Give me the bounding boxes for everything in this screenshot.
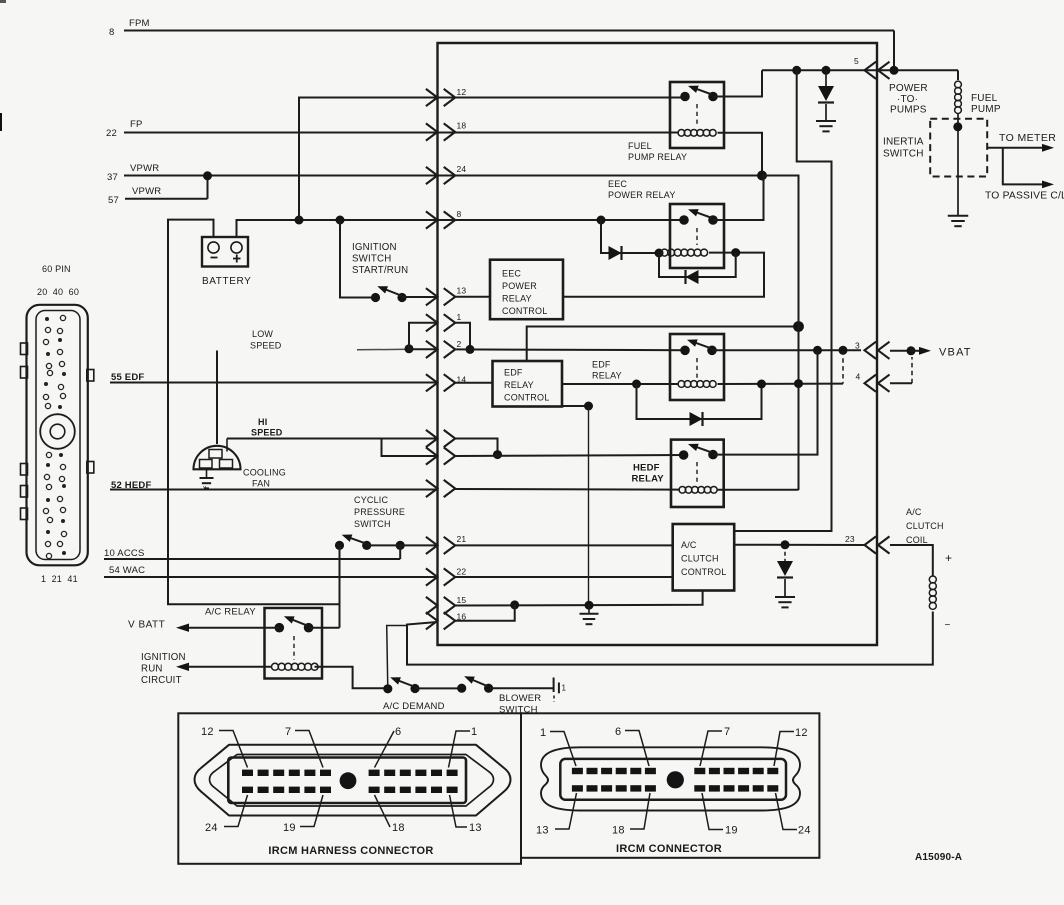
scan edge artifact <box>0 113 2 131</box>
svg-text:PUMP RELAY: PUMP RELAY <box>628 152 687 162</box>
svg-text:PRESSURE: PRESSURE <box>354 507 405 517</box>
VBAT arrow and label <box>911 350 920 352</box>
svg-text:RELAY: RELAY <box>632 474 665 485</box>
svg-text:SPEED: SPEED <box>251 428 283 438</box>
diode CR2 EEC relay clamp loop <box>659 253 736 277</box>
svg-text:BLOWER: BLOWER <box>499 693 541 704</box>
wire 52 HEDF row <box>110 489 437 491</box>
EDF relay control module U2 <box>493 361 563 407</box>
wire A/C relay coil to A/C demand switch <box>315 667 388 689</box>
wire demand sw1 to sw2 <box>415 687 462 689</box>
junction pins 1-2 external bracket <box>405 344 414 353</box>
wire hi speed row A <box>226 439 228 452</box>
svg-text:RELAY: RELAY <box>504 380 534 390</box>
svg-text:−: − <box>945 620 951 631</box>
svg-text:12: 12 <box>201 726 214 738</box>
pin 5 arrows right edge <box>865 62 877 79</box>
svg-text:19: 19 <box>725 825 738 837</box>
svg-text:5: 5 <box>854 56 859 66</box>
junction EEC coil left <box>655 249 664 258</box>
svg-text:START/RUN: START/RUN <box>352 265 408 276</box>
svg-text:12: 12 <box>457 87 467 97</box>
svg-text:57: 57 <box>108 195 119 206</box>
svg-text:55 EDF: 55 EDF <box>111 372 144 383</box>
junction pins 1-2 inside <box>466 345 475 354</box>
svg-text:EEC: EEC <box>502 269 521 279</box>
HEDF relay K4 <box>671 440 724 507</box>
svg-text:10 ACCS: 10 ACCS <box>104 548 144 559</box>
ground G2 control ground <box>588 605 590 613</box>
pin arrow left edge y=322.8 pin 1 <box>426 314 438 331</box>
ground G3 clutch clamp diode <box>775 596 795 598</box>
ground G4 pump clamp diode <box>816 120 836 122</box>
diode CR1 feed to EEC relay coil <box>601 220 659 253</box>
wire EDF control ground stub <box>562 405 589 407</box>
fuel pump coil L1 <box>957 70 959 80</box>
fuel pump relay K1 <box>670 82 724 148</box>
svg-text:CIRCUIT: CIRCUIT <box>141 675 182 686</box>
svg-text:A/C: A/C <box>681 540 697 550</box>
wire EDF control output to EDF relay coil <box>562 383 679 385</box>
svg-text:CONTROL: CONTROL <box>504 393 549 403</box>
svg-text:60 PIN: 60 PIN <box>42 264 71 274</box>
IRCM module boundary box <box>438 43 878 645</box>
wire fuel pump relay output to power-to-pumps <box>713 70 762 96</box>
A/C relay K5 <box>265 608 323 679</box>
svg-text:+: + <box>945 551 952 565</box>
wire ignition switch feed <box>340 220 376 298</box>
svg-text:FAN: FAN <box>252 479 270 489</box>
svg-text:15: 15 <box>457 595 467 605</box>
wire HEDF coil row inside <box>455 488 680 491</box>
svg-text:A/C DEMAND: A/C DEMAND <box>383 701 445 712</box>
wire VPWR node to EDF-HEDF feed vertical <box>762 176 799 491</box>
wire pin 13 row to EEC power relay control <box>455 296 490 298</box>
wire pin 8 row inside to EEC relay contact <box>455 219 684 221</box>
svg-text:13: 13 <box>457 286 467 296</box>
svg-text:EDF: EDF <box>504 368 523 378</box>
IRCM connector pins top row <box>572 768 583 774</box>
wire 55 EDF pin 14 row <box>110 382 437 384</box>
pin arrow left edge y=605.5 pin 15 <box>426 597 438 614</box>
svg-text:2: 2 <box>457 339 462 349</box>
IRCM harness connector pins bottom row <box>242 787 253 793</box>
pin arrow left edge y=220 pin 8 <box>426 211 438 228</box>
svg-text:RELAY: RELAY <box>592 371 622 381</box>
svg-text:CLUTCH: CLUTCH <box>906 521 944 531</box>
junction node ignition feed <box>336 216 345 225</box>
pin arrow left edge y=456 <box>426 447 438 464</box>
svg-text:PUMPS: PUMPS <box>890 105 927 116</box>
connector stub pin 1 <box>553 678 555 693</box>
svg-text:HI: HI <box>258 417 267 427</box>
svg-text:IRCM CONNECTOR: IRCM CONNECTOR <box>616 843 722 855</box>
wire pin 1 to pin 2 inside join <box>455 323 470 350</box>
svg-text:TO METER: TO METER <box>999 132 1056 144</box>
junction clamp diode tap <box>822 66 831 75</box>
svg-text:SWITCH: SWITCH <box>883 149 924 160</box>
junction dot VPWR <box>203 171 212 180</box>
svg-text:CLUTCH: CLUTCH <box>681 554 719 564</box>
wire power to pumps line <box>762 69 958 71</box>
wire pin 21 row to A/C clutch control <box>455 544 673 546</box>
svg-text:1: 1 <box>457 312 462 322</box>
IRCM connector body <box>541 747 800 810</box>
svg-text:4: 4 <box>856 372 861 382</box>
wire ignition run circuit to A/C relay coil <box>188 666 272 668</box>
wire demand switch riser to pin 16 wire <box>387 626 407 689</box>
junction VBAT tie <box>907 346 916 355</box>
wire hi speed bracket to row B <box>382 439 438 457</box>
junction VPWR node pin 24 <box>757 171 767 181</box>
svg-text:54 WAC: 54 WAC <box>109 565 145 576</box>
junction HEDF output riser <box>813 346 822 355</box>
wire 54 WAC pin 22 row <box>104 576 437 578</box>
wire A/C clutch control to pin 23 <box>734 544 864 546</box>
pin arrow left edge y=620.8 pin 16 <box>426 612 438 629</box>
wire battery to fuel pump relay contact pin 12 row <box>299 98 685 221</box>
junction EDF coil VPWR riser <box>757 380 766 389</box>
wire HEDF coil right to VPWR vertical <box>718 489 799 491</box>
pin 4 arrows <box>865 375 877 392</box>
svg-text:POWER: POWER <box>502 281 537 291</box>
svg-text:FUEL: FUEL <box>628 141 652 151</box>
wire A/C relay contact to lower bus <box>309 627 340 629</box>
svg-text:CONTROL: CONTROL <box>502 306 547 316</box>
svg-text:RUN: RUN <box>141 664 163 675</box>
svg-text:HEDF: HEDF <box>633 463 660 474</box>
svg-text:EDF: EDF <box>592 360 611 370</box>
svg-text:CONTROL: CONTROL <box>681 567 726 577</box>
ground fan <box>206 469 208 477</box>
A/C demand switch S3 <box>383 684 392 693</box>
wire blower switch to connector stub <box>489 687 553 689</box>
wire pin 4 external tie to VBAT dashed <box>890 382 912 384</box>
pin arrow left edge y=577 pin 22 <box>426 568 438 585</box>
pin arrow left edge y=382.8 pin 14 <box>426 374 438 391</box>
svg-text:A15090-A: A15090-A <box>915 852 962 863</box>
svg-text:6: 6 <box>395 726 401 738</box>
wire 10 ACCS <box>104 558 400 560</box>
pin arrow left edge y=349.4 pin 2 <box>426 341 438 358</box>
svg-text:TO PASSIVE C/L: TO PASSIVE C/L <box>985 191 1064 202</box>
junction VPWR branch <box>793 321 804 332</box>
svg-text:18: 18 <box>457 121 467 131</box>
junction EDF coil left loop <box>632 380 641 389</box>
svg-text:7: 7 <box>724 726 730 738</box>
pin arrow left edge y=132 pin 18 <box>426 123 438 140</box>
wire pin 3-4 tie inside dashed <box>842 350 844 383</box>
svg-text:SWITCH: SWITCH <box>354 519 391 529</box>
junction pins 15-16 join <box>510 600 519 609</box>
svg-text:INERTIA: INERTIA <box>883 137 924 148</box>
cooling fan motor M1 <box>194 446 241 470</box>
svg-text:18: 18 <box>392 822 405 834</box>
svg-text:1: 1 <box>471 726 477 738</box>
svg-text:FP: FP <box>130 119 143 130</box>
svg-text:VPWR: VPWR <box>130 163 159 174</box>
wire VPWR branch to EDF relay control feed <box>527 327 799 362</box>
svg-text:7: 7 <box>285 726 291 738</box>
svg-text:37: 37 <box>107 172 118 183</box>
svg-text:PUMP: PUMP <box>971 104 1001 115</box>
junction hi-speed join <box>493 450 502 459</box>
battery B1 <box>202 237 248 267</box>
svg-text:RELAY: RELAY <box>502 294 532 304</box>
diode CR5 clutch clamp <box>784 545 786 561</box>
svg-text:EEC: EEC <box>608 179 627 189</box>
svg-text:V BATT: V BATT <box>128 620 165 631</box>
blower switch S4 <box>457 684 466 693</box>
svg-text:13: 13 <box>469 822 482 834</box>
IRCM harness connector center post <box>340 772 357 789</box>
EEC power relay control module U1 <box>490 260 563 320</box>
svg-text:8: 8 <box>109 27 114 38</box>
wire fuel pump relay coil to VPWR node <box>718 133 763 176</box>
svg-text:SWITCH: SWITCH <box>352 254 391 265</box>
junction FPM tap <box>890 66 899 75</box>
svg-text:COOLING: COOLING <box>243 468 286 478</box>
wire to meter <box>988 147 1046 149</box>
ignition switch S1 START/RUN <box>371 293 380 302</box>
svg-text:3: 3 <box>855 341 860 351</box>
junction inertia switch node <box>953 122 962 131</box>
wire EEC relay coil left lead <box>658 252 662 254</box>
wire ignition run to pins 1 2 bracket <box>357 348 409 351</box>
wire clutch coil return to pin 16 <box>407 612 933 665</box>
wire pin 2 row to EDF relay contact <box>455 348 685 351</box>
svg-text:18: 18 <box>612 825 625 837</box>
wire cyclic switch to pin 21 <box>400 544 437 546</box>
wire HEDF relay output to VBAT node <box>713 350 818 454</box>
wire HEDF contact row <box>455 455 684 456</box>
cyclic pressure switch S2 <box>335 541 344 550</box>
junction power-to-pumps A/C feed <box>792 66 801 75</box>
A/C clutch control module U3 <box>673 524 735 591</box>
svg-text:·TO·: ·TO· <box>897 94 918 105</box>
svg-text:1: 1 <box>540 727 546 739</box>
wire pin 16 to pin 15 join <box>455 605 515 621</box>
svg-text:20 40 60: 20 40 60 <box>37 287 79 297</box>
svg-text:23: 23 <box>845 534 855 544</box>
wire EEC control output to EEC relay coil return <box>563 253 764 297</box>
svg-text:24: 24 <box>205 822 218 834</box>
wire battery negative to lower-left bus <box>168 220 340 605</box>
junction pin 3-4 tie inside <box>839 346 848 355</box>
pin arrow left edge y=438.5 <box>426 430 438 447</box>
pin 23 arrows <box>865 536 877 553</box>
svg-text:CYCLIC: CYCLIC <box>354 495 389 505</box>
pin arrow left edge y=97.5 pin 12 <box>426 89 438 106</box>
IRCM harness connector body <box>195 745 511 816</box>
svg-text:VBAT: VBAT <box>939 347 972 359</box>
wire battery positive to pin 8 row <box>237 220 602 237</box>
wire pin 22 row to A/C clutch control <box>455 576 673 578</box>
svg-text:21: 21 <box>457 534 467 544</box>
diode CR3 EDF relay clamp loop <box>637 384 762 419</box>
pin arrow left edge y=296.8 pin 13 <box>426 288 438 305</box>
wire V BATT to A/C relay contact <box>188 627 279 629</box>
wire lower bus to cyclic switch and AC relay <box>339 545 341 627</box>
wire VPWR-57 joining pin 37 line <box>125 198 208 200</box>
svg-text:8: 8 <box>457 209 462 219</box>
junction ground bus to pin 15 row <box>585 601 594 610</box>
wire EEC relay output to VPWR node <box>713 176 764 221</box>
svg-text:A/C: A/C <box>906 507 922 517</box>
svg-text:SPEED: SPEED <box>250 341 282 351</box>
svg-text:24: 24 <box>457 164 467 174</box>
wire pin 3 to VBAT <box>890 350 911 352</box>
wire FP pin 18 row <box>124 132 679 134</box>
wire A/C clutch power feed <box>734 70 831 531</box>
inertia switch dashed box <box>930 119 987 177</box>
svg-text:12: 12 <box>795 727 808 739</box>
IRCM harness connector outline box <box>178 713 521 864</box>
junction clutch clamp tap <box>781 540 790 549</box>
svg-text:1: 1 <box>562 684 567 693</box>
svg-text:19: 19 <box>283 822 296 834</box>
svg-text:13: 13 <box>536 825 549 837</box>
svg-text:FUEL: FUEL <box>971 93 998 104</box>
svg-text:6: 6 <box>615 726 621 738</box>
pin arrow left edge y=488.5 <box>426 480 438 497</box>
wire pin 23 to clutch coil <box>890 545 933 576</box>
svg-text:FPM: FPM <box>129 18 150 29</box>
svg-text:VPWR: VPWR <box>132 186 161 197</box>
EEC power relay K2 <box>670 204 724 268</box>
A/C clutch coil L2 <box>929 576 936 583</box>
svg-text:IGNITION: IGNITION <box>352 242 397 253</box>
wire EDF relay output to VBAT row <box>712 349 861 351</box>
junction EEC coil right <box>731 248 740 257</box>
IRCM harness connector pins top row <box>242 770 253 776</box>
pin arrow left edge y=545.4 pin 21 <box>426 537 438 554</box>
svg-text:22: 22 <box>106 128 117 139</box>
wire A/C clutch control ground leg <box>455 591 703 606</box>
svg-text:POWER RELAY: POWER RELAY <box>608 190 676 200</box>
wire EDF relay coil right to VPWR <box>718 383 844 385</box>
wire fuel pump to ground through inertia switch <box>957 113 959 215</box>
pin 3 arrows <box>865 342 877 359</box>
IRCM connector center post <box>667 771 684 788</box>
diode CR4 pump clamp <box>825 70 827 86</box>
svg-text:22: 22 <box>457 567 467 577</box>
wire hi-speed rows join inside <box>455 439 498 455</box>
EDF relay K3 <box>670 334 724 400</box>
wire FPM pin 8 line <box>124 30 894 32</box>
svg-text:24: 24 <box>798 825 811 837</box>
wire to passive restraint <box>1003 148 1045 185</box>
junction diode branch pin 8 <box>597 216 606 225</box>
junction node battery feed to pin 12 <box>295 216 304 225</box>
junction EDF control ground stub <box>584 402 593 411</box>
pin arrow left edge y=175.5 pin 24 <box>426 167 438 184</box>
wire ignition switch to pin 13 <box>402 296 437 298</box>
svg-text:BATTERY: BATTERY <box>202 276 251 287</box>
svg-text:1 21 41: 1 21 41 <box>41 574 78 584</box>
wire pin 14 row to EDF relay control <box>455 382 493 384</box>
svg-text:POWER: POWER <box>889 83 928 94</box>
IRCM connector outline box <box>521 713 819 858</box>
wire VPWR pin 24 row <box>124 175 762 177</box>
svg-text:A/C RELAY: A/C RELAY <box>205 607 256 618</box>
svg-text:IRCM HARNESS CONNECTOR: IRCM HARNESS CONNECTOR <box>268 845 433 857</box>
svg-text:LOW: LOW <box>252 329 273 339</box>
ground G5 fuel pump <box>948 215 969 217</box>
svg-text:COIL: COIL <box>906 535 928 545</box>
wire control ground bus vertical <box>588 406 590 605</box>
wire low speed fan feed <box>216 351 218 445</box>
svg-text:IGNITION: IGNITION <box>141 652 186 663</box>
IRCM connector pins bottom row <box>572 785 583 791</box>
